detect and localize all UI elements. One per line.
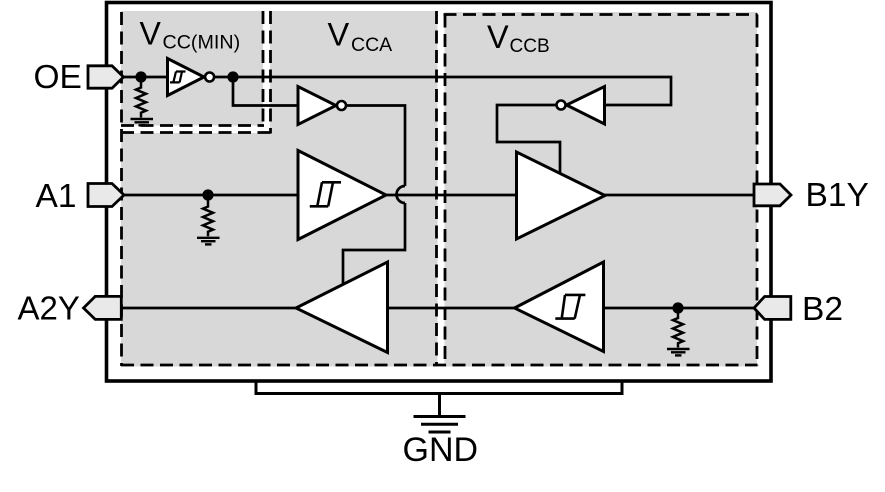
- svg-text:B1Y: B1Y: [806, 177, 869, 214]
- svg-text:GND: GND: [403, 431, 479, 469]
- pin A1: [88, 184, 124, 207]
- dashed border VCCB top: [444, 13, 758, 16]
- inverter U1 (schmitt, OE): [168, 59, 215, 96]
- junction node on A1 at R2: [202, 189, 213, 200]
- svg-text:CC(MIN): CC(MIN): [163, 32, 241, 54]
- svg-text:A2Y: A2Y: [18, 290, 80, 327]
- svg-text:CCA: CCA: [351, 34, 392, 56]
- label VCC(MIN): [140, 16, 241, 54]
- dashed border VCCA notch horizontal: [121, 131, 272, 134]
- dashed border VCC(MIN) right: [262, 11, 265, 124]
- buffer U6 (B2 schmitt buffer, left-pointing): [515, 262, 604, 352]
- svg-text:V: V: [328, 17, 350, 53]
- svg-text:A1: A1: [36, 178, 77, 215]
- pin A2Y: [84, 296, 122, 319]
- pin B2: [754, 297, 791, 320]
- wire branch from node at 233 down to inverter U2: [233, 77, 298, 106]
- wire hop over A1 output: [397, 186, 406, 203]
- wire GND stem: [438, 394, 441, 417]
- label VCCA: [328, 17, 393, 57]
- inverter U2 (VCCA): [298, 87, 346, 125]
- ground GND symbol: [414, 417, 466, 433]
- dashed border VCCA right: [435, 11, 438, 366]
- wire U4 output to buffer U5: [385, 194, 517, 197]
- pin OE: [88, 66, 124, 88]
- region VCCA gray fill: [121, 11, 438, 367]
- pin B1Y: [754, 184, 791, 206]
- junction node on B2 at R3: [672, 302, 683, 313]
- label VCCB: [487, 19, 550, 57]
- buffer U4 (A1 schmitt buffer): [298, 151, 386, 240]
- inverter U3 (VCCB, left-pointing): [557, 87, 605, 125]
- junction node on OE at R1: [135, 71, 146, 82]
- ground at R3: [667, 349, 690, 355]
- svg-text:CCB: CCB: [510, 36, 550, 57]
- wire OE pin to inverter U1: [122, 76, 168, 79]
- wire U3 output down to B1Y buffer enable: [497, 105, 560, 175]
- svg-text:V: V: [487, 19, 509, 55]
- dashed border VCC(MIN) bottom: [121, 124, 264, 127]
- region VCC(MIN) gray fill: [121, 11, 263, 126]
- resistor R3 pulldown on B2: [673, 308, 683, 348]
- wire U7 output to A2Y pin: [121, 307, 297, 310]
- resistor R2 pulldown on A1: [203, 195, 213, 236]
- dashed border left of gray regions: [120, 12, 123, 366]
- buffer U5 (B1Y output buffer): [517, 152, 606, 239]
- svg-text:B2: B2: [802, 291, 843, 328]
- wire GND bus under box: [256, 381, 622, 394]
- outer box: [107, 3, 772, 382]
- resistor R1 pulldown on OE: [136, 77, 146, 118]
- svg-text:V: V: [140, 16, 162, 52]
- dashed border VCCB right: [756, 15, 759, 367]
- junction node after U1: [227, 71, 238, 82]
- dashed border VCCA notch vertical: [269, 11, 272, 134]
- wire U5 output to B1Y pin: [605, 194, 757, 197]
- wire U2 output down to A2Y buffer enable: [343, 106, 405, 286]
- wire B2 pin to buffer U6: [604, 307, 757, 310]
- wire A1 pin to buffer U4: [122, 194, 298, 197]
- ground at R1: [131, 119, 154, 125]
- wire U1 output across top to VCCB: [215, 77, 672, 105]
- ground at R2: [197, 238, 220, 245]
- dashed border bottom of gray regions: [121, 364, 758, 367]
- region VCCB gray fill: [445, 12, 758, 367]
- svg-text:OE: OE: [34, 59, 82, 96]
- buffer U7 (A2Y output buffer, left-pointing): [296, 262, 388, 353]
- wire U6 output to buffer U7: [389, 307, 516, 310]
- dashed border VCCB left: [444, 15, 447, 367]
